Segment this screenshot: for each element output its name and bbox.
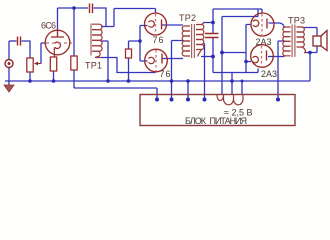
svg-text:6С6: 6С6 (41, 21, 56, 31)
svg-text:ТР3: ТР3 (288, 16, 305, 26)
svg-text:ТР1: ТР1 (85, 61, 102, 71)
svg-text:БЛОК ПИТАНИЯ: БЛОК ПИТАНИЯ (185, 116, 247, 126)
svg-text:76: 76 (153, 35, 164, 45)
svg-text:2А3: 2А3 (261, 69, 277, 79)
svg-text:ТР2: ТР2 (179, 13, 196, 23)
svg-text:76: 76 (160, 69, 171, 79)
svg-text:2А3: 2А3 (256, 37, 272, 47)
